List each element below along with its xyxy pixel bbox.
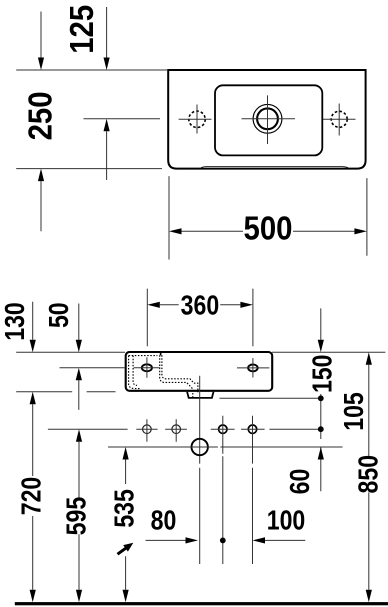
svg-text:130: 130 [0, 302, 30, 341]
platform front edge (solid) [160, 353, 162, 356]
extension line tap hole centre (y=118.8) [84, 118, 161, 120]
bowl profile dashed inner [162, 355, 198, 392]
basin outline (front) [126, 352, 273, 391]
supply circle c3 [219, 425, 227, 433]
svg-text:595: 595 [62, 497, 92, 536]
left fixing hole crosshair [134, 357, 161, 378]
extension line ceramic bottom (y=391.7) [16, 391, 115, 393]
supply circle c4 [248, 425, 256, 433]
right fixing hole ellipse [248, 365, 258, 372]
tap hole crosshair [242, 95, 296, 144]
dim 500 arrowheads [169, 228, 182, 234]
left pre-punched hole (dashed circle) [189, 111, 205, 127]
basin inner bowl rect (plan) [215, 85, 322, 155]
dim 50 arrows [78, 304, 80, 410]
svg-text:360: 360 [181, 291, 220, 321]
dim 80/100 line [146, 539, 306, 541]
svg-text:850: 850 [354, 455, 384, 494]
extension line bottom edge (y=168.6) [16, 168, 162, 170]
drain centreline [199, 376, 201, 564]
svg-text:80: 80 [151, 506, 177, 536]
dashed left wall outer [129, 356, 141, 389]
basin outer outline (plan) [168, 70, 365, 169]
floor line [15, 602, 388, 605]
bowl profile dashed outer [160, 355, 193, 397]
dashed left wall inner [133, 356, 137, 386]
supply connection line left [48, 428, 128, 430]
left fixing hole ellipse [142, 364, 152, 371]
supply circle c4 crosshair [241, 428, 265, 430]
drain spigot trapezoid [187, 392, 213, 398]
dim 360 extension lines [147, 289, 253, 347]
dot terminator at 429 [318, 426, 324, 432]
supply circle c4 vertical centreline [252, 416, 254, 564]
svg-text:250: 250 [22, 91, 59, 140]
wall direction arrow [118, 548, 127, 555]
extension line top edge (y=70) [16, 69, 168, 71]
dim 535 [125, 460, 127, 590]
basin front rim line (plan) [201, 167, 348, 168]
svg-text:720: 720 [17, 477, 47, 516]
tap hole outer circle [253, 104, 282, 133]
dim chain 150/105/60 vertical line [320, 308, 322, 491]
dim 125 arrow tails [106, 7, 108, 180]
svg-text:125: 125 [64, 5, 101, 54]
supply connection line right [269, 428, 320, 430]
dim 125 arrowheads [104, 58, 110, 71]
right fixing hole crosshair [237, 358, 269, 377]
supply circle c2 crosshair [165, 419, 187, 442]
supply circle c3 crosshair [211, 428, 235, 430]
svg-text:500: 500 [244, 210, 293, 247]
svg-text:60: 60 [285, 469, 315, 495]
dot terminator 80/100 [220, 538, 226, 544]
rim level extension line right [272, 351, 385, 353]
dim 250 arrow tails [40, 12, 42, 232]
dot terminator at 398 [318, 395, 324, 401]
drain trap circle [192, 439, 208, 455]
svg-text:100: 100 [267, 506, 306, 536]
dim 360 line [160, 304, 241, 306]
line 150 level (y=398.3) [220, 397, 321, 399]
dashed rim line [129, 355, 158, 357]
supply circle c2 [172, 425, 181, 434]
tap hole inner circle [257, 108, 278, 129]
svg-text:105: 105 [339, 392, 369, 431]
supply circle c1 crosshair [136, 419, 157, 442]
supply circle c3 vertical centreline [222, 416, 224, 564]
supply circle c1 [143, 425, 152, 434]
dim 250 arrowheads [38, 58, 44, 71]
svg-text:150: 150 [308, 355, 338, 394]
svg-text:535: 535 [110, 489, 140, 528]
right pre-punched hole (dashed circle) [331, 111, 347, 127]
dim 500 line [182, 230, 355, 232]
rim level extension line left [16, 351, 125, 353]
extension line 50 level [60, 367, 125, 369]
left pre-punched hole crosshair [179, 105, 212, 134]
dim 360 arrowheads [147, 302, 160, 308]
dim 720 (with 130 bottom arrow) [32, 404, 34, 590]
drain level long line (y=447) [108, 446, 343, 448]
dim 500 extension lines [169, 176, 367, 259]
right pre-punched hole crosshair [323, 104, 356, 136]
dim 595 [78, 442, 80, 590]
dim 130 arrows [32, 302, 34, 340]
dim 850 [368, 365, 370, 590]
svg-text:50: 50 [44, 302, 74, 328]
